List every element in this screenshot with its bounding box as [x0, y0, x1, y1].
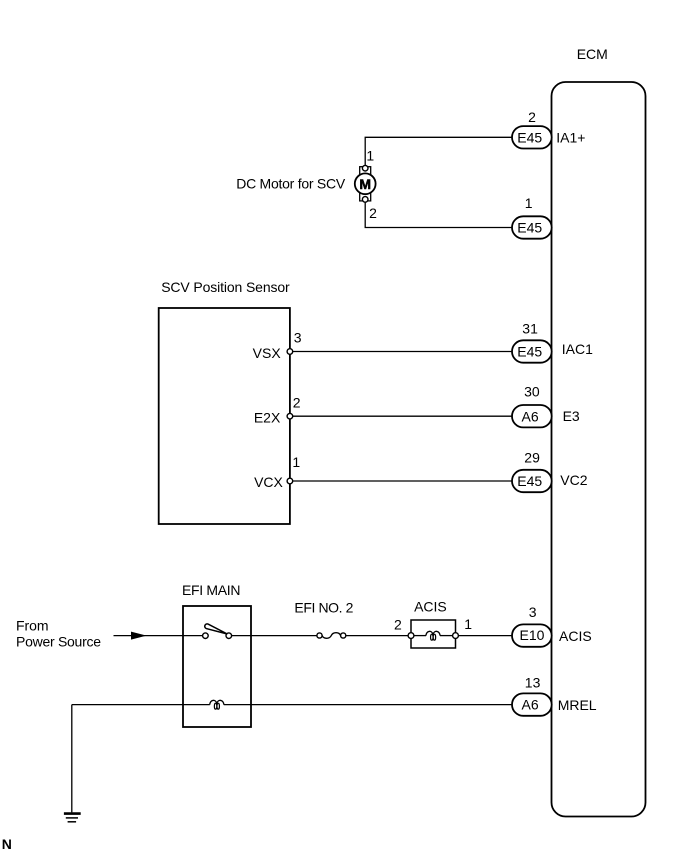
relay EFI MAIN box: [183, 606, 251, 727]
wire: VSX to E45 (IAC1): [293, 351, 513, 353]
svg-text:E10: E10: [520, 627, 545, 643]
wire: VCX to E45 (VC2): [293, 480, 513, 482]
svg-text:2: 2: [293, 395, 301, 411]
svg-text:VCX: VCX: [254, 474, 283, 490]
pin VCX terminal: [287, 478, 293, 484]
pin VSX terminal: [287, 349, 293, 355]
svg-text:N: N: [2, 836, 12, 852]
svg-text:E3: E3: [563, 408, 580, 424]
wire: DC motor terminal 2 to E45 pin1: [365, 202, 512, 227]
svg-text:E45: E45: [517, 344, 542, 360]
svg-text:13: 13: [525, 675, 541, 691]
connector A6 (MREL): [512, 693, 552, 715]
relay switch contacts: [203, 633, 209, 639]
ACIS coil: [426, 631, 440, 635]
svg-text:E45: E45: [517, 129, 542, 145]
svg-text:2: 2: [394, 616, 402, 632]
svg-text:E45: E45: [517, 220, 542, 236]
connector E45 (IAC1): [512, 340, 552, 362]
svg-text:A6: A6: [522, 697, 539, 713]
svg-text:From: From: [16, 618, 49, 634]
fuse EFI NO.2: [317, 633, 346, 639]
svg-text:ACIS: ACIS: [559, 628, 592, 644]
svg-text:DC Motor for SCV: DC Motor for SCV: [236, 176, 346, 192]
svg-text:1: 1: [525, 195, 533, 211]
svg-text:EFI NO. 2: EFI NO. 2: [294, 600, 353, 616]
svg-text:31: 31: [522, 321, 538, 337]
svg-text:ECM: ECM: [577, 46, 608, 62]
svg-text:E45: E45: [517, 473, 542, 489]
arrow on power feed wire: [131, 632, 147, 640]
connector E45 (motor pin 1): [512, 216, 552, 238]
relay switch lever: [205, 624, 228, 634]
svg-text:E2X: E2X: [254, 410, 281, 426]
svg-text:Power Source: Power Source: [16, 634, 101, 650]
wire: ACIS to E10: [459, 635, 513, 637]
svg-text:2: 2: [528, 109, 536, 125]
DC motor M1 for SCV: [355, 165, 376, 202]
svg-text:EFI MAIN: EFI MAIN: [182, 582, 241, 598]
svg-text:MREL: MREL: [558, 697, 597, 713]
svg-text:3: 3: [294, 329, 302, 345]
connector E10 (ACIS): [512, 624, 552, 646]
wire: E45 pin2 to DC motor terminal 1: [365, 137, 512, 165]
svg-text:M: M: [359, 176, 371, 192]
connector E45 (VC2): [512, 470, 552, 492]
svg-text:IA1+: IA1+: [556, 130, 585, 146]
wire: E2X to A6 (E3): [293, 415, 513, 417]
svg-text:ACIS: ACIS: [414, 598, 447, 614]
connector A6 (E3): [512, 405, 552, 427]
svg-text:1: 1: [366, 147, 374, 163]
wire: ground drop: [71, 705, 73, 813]
SCV position sensor box: [159, 308, 290, 524]
ACIS valve box: [408, 620, 458, 648]
connector E45 (IA1+): [512, 126, 552, 148]
ground: [64, 814, 81, 822]
wire: ground riser to relay coil: [72, 704, 210, 706]
svg-text:VSX: VSX: [253, 345, 282, 361]
wire: power source to EFI MAIN switch: [114, 635, 203, 637]
svg-text:1: 1: [292, 454, 300, 470]
svg-text:30: 30: [524, 384, 540, 400]
svg-text:VC2: VC2: [560, 472, 587, 488]
ECM box U1: [552, 82, 646, 817]
svg-text:1: 1: [464, 616, 472, 632]
relay coil EFI MAIN: [210, 700, 224, 709]
svg-text:29: 29: [524, 449, 540, 465]
wire: fuse to ACIS: [346, 635, 408, 637]
svg-text:A6: A6: [522, 408, 539, 424]
svg-text:SCV Position Sensor: SCV Position Sensor: [161, 279, 290, 295]
svg-text:3: 3: [529, 604, 537, 620]
svg-text:IAC1: IAC1: [562, 341, 593, 357]
wire: switch to fuse EFI NO.2: [232, 635, 317, 637]
wire: relay coil to A6 (MREL): [224, 704, 512, 706]
pin E2X terminal: [287, 413, 293, 419]
svg-text:2: 2: [369, 205, 377, 221]
